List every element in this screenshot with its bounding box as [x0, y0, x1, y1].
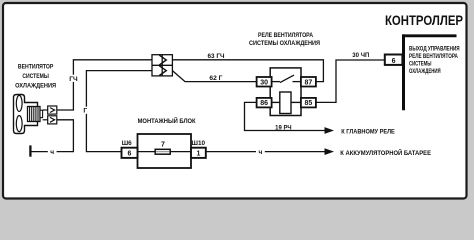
svg-text:РЕЛЕ ВЕНТИЛЯТОРА: РЕЛЕ ВЕНТИЛЯТОРА: [258, 32, 313, 39]
wire Г: connector row 2 left down to mounting block pin Ш6-6: [86, 71, 152, 152]
relay pin 86: [257, 98, 272, 108]
fan motor M (hatched body): [28, 107, 48, 122]
fuse 7: [155, 149, 170, 154]
svg-text:ОХЛАЖДЕНИЯ: ОХЛАЖДЕНИЯ: [15, 82, 56, 89]
svg-text:30: 30: [260, 79, 268, 86]
svg-text:6: 6: [128, 150, 132, 157]
relay pin 30: [257, 77, 272, 87]
svg-text:Ш6: Ш6: [122, 140, 132, 147]
label ГЧ on wire: [69, 75, 78, 83]
svg-text:62 Г: 62 Г: [209, 75, 222, 82]
ground terminal: [29, 145, 31, 156]
svg-text:К АККУМУЛЯТОРНОЙ БАТАРЕЕ: К АККУМУЛЯТОРНОЙ БАТАРЕЕ: [340, 149, 431, 157]
svg-text:РЕЛЕ ВЕНТИЛЯТОРА: РЕЛЕ ВЕНТИЛЯТОРА: [409, 53, 458, 60]
svg-text:ч: ч: [258, 149, 262, 156]
relay K (cooling fan relay) body: [270, 68, 301, 116]
label ВЫХОД УПРАВЛЕНИЯ РЕЛЕ ВЕНТИЛЯТОРА СИСТЕМЫ ОХЛАЖДЕНИЯ: [409, 46, 460, 75]
svg-text:30 ЧП: 30 ЧП: [352, 52, 369, 59]
label ВЕНТИЛЯТОР СИСТЕМЫ ОХЛАЖДЕНИЯ: [15, 63, 56, 89]
fan connector pin 1: [48, 106, 57, 114]
fan blade bottom: [16, 116, 22, 132]
svg-text:КОНТРОЛЛЕР: КОНТРОЛЛЕР: [385, 12, 463, 28]
fan connector pin 2: [48, 116, 57, 124]
connector pin Ш10-1: [191, 148, 206, 158]
relay pin 85: [301, 98, 316, 108]
relay switch contact 30-87: [270, 75, 301, 83]
controller pin 6: [385, 55, 403, 65]
arrow to main relay: [325, 127, 335, 134]
svg-text:СИСТЕМЫ ОХЛАЖДЕНИЯ: СИСТЕМЫ ОХЛАЖДЕНИЯ: [249, 40, 320, 47]
svg-text:7: 7: [161, 142, 165, 149]
arrow to battery: [325, 148, 335, 155]
controller bracket: [402, 34, 457, 110]
wire ч: fan bottom pin down-left to ground terminal: [31, 120, 73, 152]
svg-text:ВЫХОД УПРАВЛЕНИЯ: ВЫХОД УПРАВЛЕНИЯ: [409, 46, 460, 53]
svg-text:СИСТЕМЫ: СИСТЕМЫ: [409, 60, 431, 67]
fan shroud outline: [14, 95, 38, 134]
svg-text:19 РЧ: 19 РЧ: [275, 124, 292, 131]
diagram frame: [3, 3, 467, 199]
connector pin Ш6-6: [122, 148, 138, 158]
relay coil 85-86: [270, 92, 301, 114]
svg-text:86: 86: [260, 100, 268, 107]
fan blade top: [16, 95, 22, 111]
svg-text:ОХЛАЖДЕНИЯ: ОХЛАЖДЕНИЯ: [409, 68, 441, 75]
svg-text:К ГЛАВНОМУ РЕЛЕ: К ГЛАВНОМУ РЕЛЕ: [341, 129, 395, 136]
svg-text:ВЕНТИЛЯТОР: ВЕНТИЛЯТОР: [18, 63, 54, 70]
svg-text:85: 85: [305, 100, 313, 107]
wire ГЧ: fan top pin up and right to connector row 1: [57, 60, 152, 110]
wire 62 Г: connector row 2 right diagonal to relay pin 30: [172, 71, 256, 82]
svg-text:ч: ч: [50, 149, 54, 156]
label Г on wire: [82, 107, 90, 115]
svg-text:6: 6: [392, 58, 396, 65]
svg-text:МОНТАЖНЫЙ БЛОК: МОНТАЖНЫЙ БЛОК: [138, 116, 197, 125]
label ч on battery wire: [256, 148, 265, 156]
wire ч: mounting block pin Ш10-1 right to battery arrow: [206, 151, 325, 153]
svg-text:ГЧ: ГЧ: [69, 76, 78, 83]
wire 19 РЧ: relay pin 86 down-right to main-relay arrow: [245, 102, 325, 130]
label ч on ground wire: [48, 148, 57, 156]
wire 63 ГЧ: connector row 1 right to relay pin 87: [172, 60, 323, 82]
mounting block box: [138, 134, 192, 168]
connector X (2x2 plug-socket): [152, 55, 172, 76]
svg-text:63 ГЧ: 63 ГЧ: [208, 53, 225, 60]
svg-text:87: 87: [305, 79, 313, 86]
svg-text:Ш10: Ш10: [192, 140, 206, 147]
svg-text:СИСТЕМЫ: СИСТЕМЫ: [22, 73, 49, 80]
relay pin 87: [301, 77, 316, 87]
label РЕЛЕ ВЕНТИЛЯТОРА СИСТЕМЫ ОХЛАЖДЕНИЯ: [249, 32, 320, 47]
wire 30 ЧП: relay pin 85 up to controller pin 6: [316, 60, 385, 102]
wire: fuse feed through mounting block: [138, 151, 192, 153]
svg-text:1: 1: [196, 150, 200, 157]
svg-text:Г: Г: [83, 108, 87, 115]
